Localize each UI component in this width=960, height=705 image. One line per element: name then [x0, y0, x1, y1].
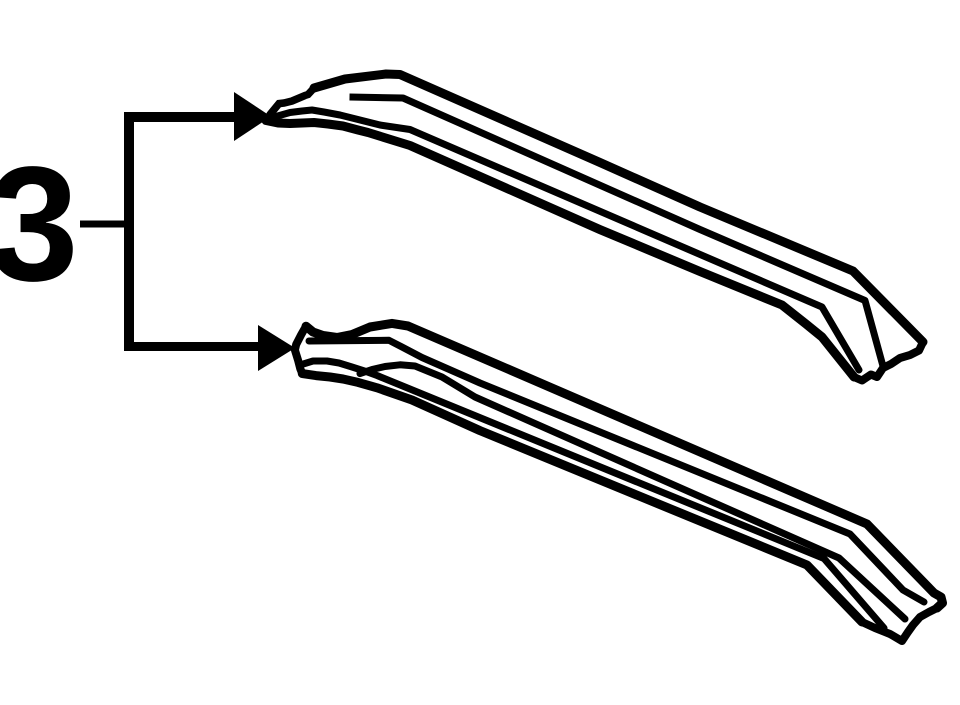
svg-text:3: 3 [0, 132, 79, 315]
